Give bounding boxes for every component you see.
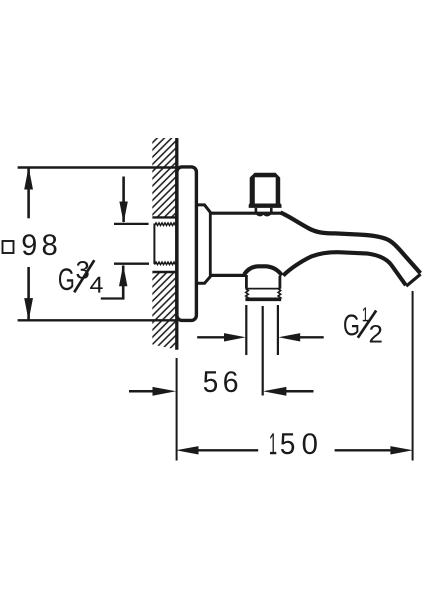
text 98 digit 9 — [23, 234, 36, 255]
outlet centerline — [262, 306, 264, 396]
G1/2 right arrow — [278, 333, 300, 341]
dim 98 line lower segment — [27, 267, 30, 320]
G3/4 thread bottom zigzag — [155, 262, 177, 265]
G3/4 lower arrow head — [119, 265, 127, 287]
outlet joint line — [246, 288, 281, 290]
dim 150 right arrow — [390, 446, 413, 454]
label G1/2 letter G — [344, 314, 358, 335]
outlet nut left thread zigzag — [246, 289, 249, 299]
dim 150 right extension line — [412, 291, 414, 461]
knob collar right line — [270, 208, 273, 214]
wall hatch lower section — [152, 273, 176, 350]
dim 56 right arrow — [263, 387, 287, 396]
outlet dome — [244, 266, 282, 275]
dim 56 right line — [285, 390, 314, 393]
text 150 digit 1 — [270, 433, 276, 454]
outlet dome left side — [245, 275, 248, 289]
text 98 digit 8 — [43, 234, 57, 255]
wall face line — [175, 138, 178, 350]
G3/4 thread top zigzag — [155, 223, 177, 226]
spout bottom edge — [283, 252, 406, 285]
G1/2 left arrow — [224, 333, 246, 341]
G3/4 bottom tick — [114, 263, 149, 265]
dim 150 line right segment — [335, 449, 393, 451]
G3/4 upper arrow head — [119, 202, 127, 224]
connector neck between flange and body — [198, 205, 211, 283]
wall lower section top border — [152, 271, 176, 273]
label G3/4 denominator 4 — [90, 277, 103, 293]
square symbol — [3, 241, 14, 253]
dim 150 line left segment — [196, 449, 258, 451]
dim 98 arrow down — [24, 298, 33, 321]
outlet nut right thread zigzag — [278, 289, 281, 299]
label G1/2 numerator 1 — [363, 307, 368, 321]
text 150 digit 0 — [303, 433, 317, 454]
G1/2 right extension line — [277, 305, 279, 355]
G3/4 leader line — [101, 297, 125, 299]
label G3/4 letter G — [59, 268, 73, 290]
G3/4 top tick — [114, 223, 149, 225]
G1/2 left dim line — [197, 336, 226, 338]
diverter knob inner white — [255, 177, 276, 203]
diverter knob outer — [249, 173, 282, 208]
text 56 digit 5 — [204, 371, 217, 392]
knob collar wavy base — [257, 214, 271, 216]
wall hatch upper section — [152, 138, 176, 217]
text 56 digit 6 — [224, 371, 237, 392]
outlet dome right side — [278, 276, 281, 289]
text 150 digit 5 — [281, 433, 294, 454]
body top edge — [209, 212, 282, 215]
outlet nut bottom edge — [245, 297, 281, 301]
spout tip end — [406, 274, 420, 286]
dim 98 top extension line — [18, 166, 177, 168]
body left edge — [209, 212, 212, 277]
G1/2 left extension line — [245, 305, 247, 355]
body bottom edge — [209, 274, 246, 277]
label G1/2 denominator 2 — [370, 325, 382, 343]
dim 98 bottom extension line — [18, 319, 176, 321]
G3/4 fraction slash — [74, 260, 94, 292]
wall upper section bottom border — [152, 216, 176, 218]
G3/4 lower arrow shaft — [122, 266, 125, 299]
G1/2 right dim line — [299, 336, 324, 338]
spout top edge — [281, 213, 421, 274]
G3/4 upper arrow shaft — [122, 177, 125, 223]
dim 56 left arrow — [153, 387, 177, 396]
G1/2 fraction slash — [358, 311, 376, 338]
knob collar left line — [255, 208, 258, 214]
G3/4 thread hole left edge — [153, 224, 155, 265]
dim 150 left extension line — [176, 358, 178, 461]
dim 56 left line — [129, 390, 154, 393]
dim 98 line upper segment — [27, 168, 30, 218]
dim 98 arrow up — [24, 167, 33, 190]
wall flange (escutcheon plate) — [177, 167, 197, 321]
label G3/4 numerator 3 — [76, 261, 88, 279]
dim 150 left arrow — [176, 446, 199, 454]
